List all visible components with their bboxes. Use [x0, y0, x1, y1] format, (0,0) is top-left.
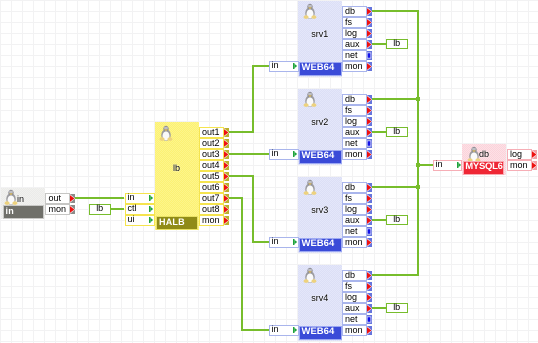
block lb body	[155, 122, 199, 230]
port lb.out6	[199, 182, 229, 193]
icon tux (lb block)	[159, 125, 173, 141]
block srv1 body	[298, 1, 342, 77]
reference box lb (srv2.aux)	[386, 127, 408, 138]
wire -> srv1.in	[253, 65, 269, 66]
wire -> srv4.in	[242, 329, 269, 330]
reference box lb (srv1.aux)	[386, 39, 408, 50]
port srv2.db	[342, 94, 372, 105]
port srv4.mon	[342, 325, 372, 336]
port srv4.db	[342, 270, 372, 281]
label srv4	[298, 294, 342, 303]
label in	[17, 195, 31, 204]
wire srv4.aux -> lb ref	[372, 307, 386, 308]
wire srv1.aux -> lb ref	[372, 43, 386, 44]
wire lb.out3 -> srv2.in	[229, 153, 269, 154]
block srv2 body	[298, 89, 342, 165]
icon tux (srv4)	[303, 267, 317, 283]
port lb.mon	[199, 215, 229, 226]
port srv1.log	[342, 28, 372, 39]
port srv2.aux	[342, 127, 372, 138]
icon tux (srv3)	[303, 179, 317, 195]
label srv1	[298, 30, 342, 39]
icon tux (srv2)	[303, 91, 317, 107]
wire srv3.aux -> lb ref	[372, 219, 386, 220]
port srv3.fs	[342, 193, 372, 204]
junction db.in branch	[416, 163, 420, 167]
title bar WEB64 (srv3)	[299, 238, 342, 251]
port srv4.aux	[342, 303, 372, 314]
port lb.ui	[125, 215, 155, 226]
reference box lb (to ctl)	[89, 204, 111, 215]
port srv1.mon	[342, 61, 372, 72]
port db.mon	[507, 160, 537, 171]
icon tux (in block)	[4, 189, 18, 205]
label srv2	[298, 118, 342, 127]
port srv4.net	[342, 314, 372, 325]
port lb.out2	[199, 138, 229, 149]
reference box lb (srv3.aux)	[386, 215, 408, 226]
wire srv2.aux -> lb ref	[372, 131, 386, 132]
port srv2.log	[342, 116, 372, 127]
block srv3 body	[298, 177, 342, 253]
junction srv3.db	[416, 185, 420, 189]
wire db trunk vertical	[417, 10, 418, 275]
reference box lb (srv4.aux)	[386, 303, 408, 314]
wire srv3.db stub	[372, 186, 419, 187]
icon tux (srv1)	[303, 3, 317, 19]
port srv2.fs	[342, 105, 372, 116]
wire lb.out1 stub	[229, 131, 254, 132]
title bar WEB64 (srv2)	[299, 150, 342, 163]
port lb.out5	[199, 171, 229, 182]
port lb.out4	[199, 160, 229, 171]
port srv3.in	[269, 237, 299, 248]
title bar HALB	[156, 216, 198, 229]
block db body	[462, 144, 506, 175]
wire lb.out5 stub	[229, 175, 254, 176]
port srv1.net	[342, 50, 372, 61]
port lb.out8	[199, 204, 229, 215]
title bar WEB64 (srv1)	[299, 62, 342, 75]
port srv1.fs	[342, 17, 372, 28]
wire lb-ref -> lb.ctl	[111, 208, 125, 209]
block in body	[1, 188, 45, 219]
title bar MYSQL6	[463, 161, 504, 174]
port srv3.mon	[342, 237, 372, 248]
port in.out	[45, 193, 75, 204]
title bar IN	[3, 205, 45, 218]
wire srv1.db stub	[372, 10, 419, 11]
port srv2.mon	[342, 149, 372, 160]
port srv3.net	[342, 226, 372, 237]
icon tux (db block)	[467, 146, 481, 162]
title bar WEB64 (srv4)	[299, 326, 342, 339]
wire in.out -> lb.in	[75, 197, 125, 198]
port srv4.fs	[342, 281, 372, 292]
label lb	[155, 164, 199, 173]
wire srv4.db stub	[372, 274, 419, 275]
port srv3.aux	[342, 215, 372, 226]
port lb.in	[125, 193, 155, 204]
port db.log	[507, 149, 537, 160]
port srv2.in	[269, 149, 299, 160]
port srv3.log	[342, 204, 372, 215]
wire -> srv3.in	[253, 241, 269, 242]
port lb.out3	[199, 149, 229, 160]
port srv1.in	[269, 61, 299, 72]
label srv3	[298, 206, 342, 215]
wire srv2.db stub	[372, 98, 419, 99]
port srv4.log	[342, 292, 372, 303]
port lb.out1	[199, 127, 229, 138]
port db.in	[433, 160, 463, 171]
port lb.out7	[199, 193, 229, 204]
port in.mon	[45, 204, 75, 215]
port srv1.db	[342, 6, 372, 17]
wire lb.out7 stub	[229, 197, 243, 198]
wire trunk -> db.in	[418, 164, 433, 165]
port srv1.aux	[342, 39, 372, 50]
wire lb.out5 vertical	[252, 175, 253, 242]
wire lb.out7 vertical	[241, 197, 242, 330]
label db	[479, 150, 495, 159]
port srv2.net	[342, 138, 372, 149]
port srv4.in	[269, 325, 299, 336]
wire lb.out1 vertical	[252, 65, 253, 132]
junction srv2.db	[416, 97, 420, 101]
block srv4 body	[298, 265, 342, 341]
port lb.ctl	[125, 204, 155, 215]
port srv3.db	[342, 182, 372, 193]
